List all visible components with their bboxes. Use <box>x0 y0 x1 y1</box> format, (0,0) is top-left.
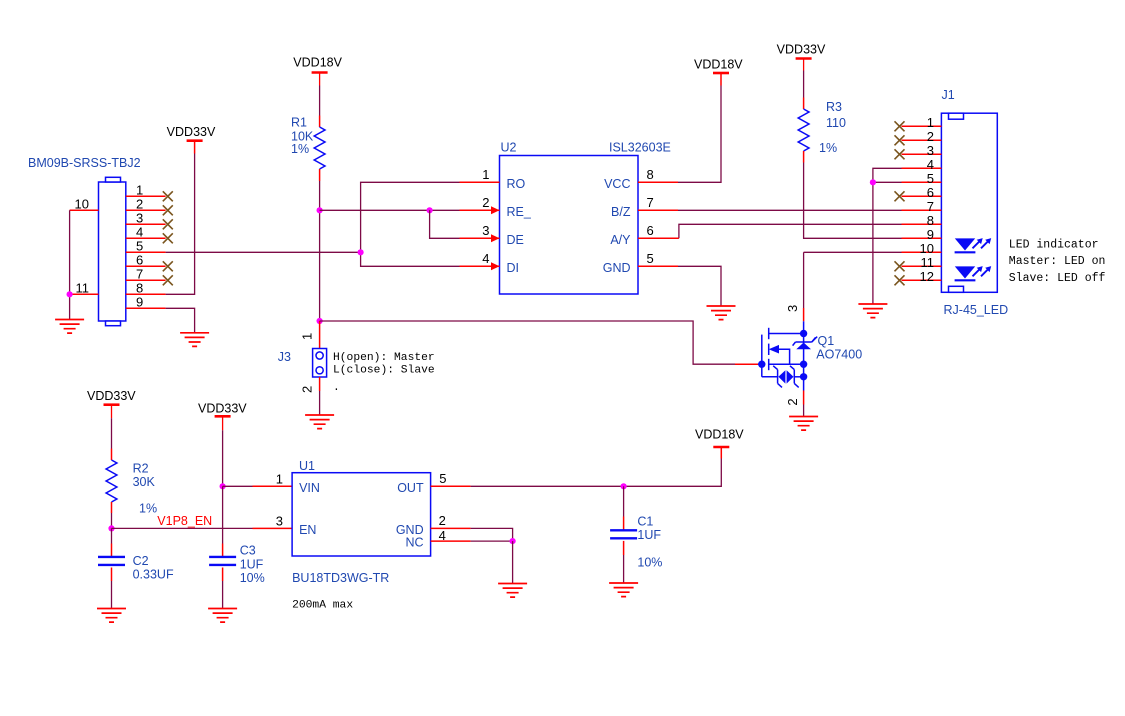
svg-text:1%: 1% <box>291 142 309 156</box>
svg-text:9: 9 <box>136 294 143 309</box>
svg-text:RJ-45_LED: RJ-45_LED <box>944 303 1009 317</box>
svg-text:6: 6 <box>136 252 143 267</box>
svg-text:ISL32603E: ISL32603E <box>609 141 671 155</box>
svg-text:7: 7 <box>927 199 934 214</box>
svg-text:LED indicator: LED indicator <box>1009 238 1099 251</box>
svg-text:VCC: VCC <box>604 177 630 191</box>
svg-text:VDD33V: VDD33V <box>777 43 826 57</box>
svg-text:Q1: Q1 <box>818 334 835 348</box>
svg-text:R3: R3 <box>826 100 842 114</box>
svg-text:5: 5 <box>439 471 446 486</box>
svg-text:R2: R2 <box>133 462 149 476</box>
svg-text:C3: C3 <box>240 544 256 558</box>
svg-text:2: 2 <box>300 386 315 393</box>
svg-text:J3: J3 <box>278 350 291 364</box>
svg-text:8: 8 <box>927 213 934 228</box>
svg-text:3: 3 <box>785 305 800 312</box>
svg-text:2: 2 <box>927 129 934 144</box>
svg-text:J1: J1 <box>942 88 955 102</box>
svg-text:2: 2 <box>136 196 143 211</box>
svg-text:4: 4 <box>927 157 934 172</box>
svg-text:200mA max: 200mA max <box>292 600 353 612</box>
svg-text:V1P8_EN: V1P8_EN <box>157 514 212 528</box>
svg-text:.: . <box>333 382 340 394</box>
svg-text:DI: DI <box>507 261 520 275</box>
svg-text:3: 3 <box>482 223 489 238</box>
svg-text:1%: 1% <box>819 141 837 155</box>
svg-text:30K: 30K <box>133 475 156 489</box>
svg-text:C1: C1 <box>637 515 653 529</box>
svg-text:U1: U1 <box>299 459 315 473</box>
svg-text:VDD18V: VDD18V <box>695 427 744 441</box>
svg-text:VDD33V: VDD33V <box>167 125 216 139</box>
svg-text:3: 3 <box>927 143 934 158</box>
svg-text:10: 10 <box>75 196 89 211</box>
svg-text:9: 9 <box>927 227 934 242</box>
svg-text:4: 4 <box>136 224 143 239</box>
svg-text:1: 1 <box>136 182 143 197</box>
svg-text:3: 3 <box>276 514 283 529</box>
svg-text:6: 6 <box>647 223 654 238</box>
svg-text:2: 2 <box>439 513 446 528</box>
svg-text:H(open): Master: H(open): Master <box>333 352 435 364</box>
svg-text:VDD33V: VDD33V <box>87 389 136 403</box>
svg-text:BM09B-SRSS-TBJ2: BM09B-SRSS-TBJ2 <box>28 156 141 170</box>
svg-text:1UF: 1UF <box>240 557 264 571</box>
svg-text:10: 10 <box>920 241 934 256</box>
svg-text:B/Z: B/Z <box>611 205 631 219</box>
svg-text:2: 2 <box>785 398 800 405</box>
svg-text:VDD33V: VDD33V <box>198 402 247 416</box>
svg-text:RO: RO <box>507 177 526 191</box>
svg-text:11: 11 <box>76 280 90 295</box>
svg-text:Master: LED on: Master: LED on <box>1009 255 1106 268</box>
svg-text:VDD18V: VDD18V <box>293 56 342 70</box>
svg-text:OUT: OUT <box>397 481 424 495</box>
svg-text:A/Y: A/Y <box>610 233 631 247</box>
svg-text:12: 12 <box>920 269 934 284</box>
svg-text:R1: R1 <box>291 116 307 130</box>
svg-text:5: 5 <box>136 238 143 253</box>
svg-text:3: 3 <box>136 210 143 225</box>
svg-text:VDD18V: VDD18V <box>694 57 743 71</box>
svg-text:NC: NC <box>406 536 424 550</box>
svg-text:6: 6 <box>927 185 934 200</box>
svg-text:10%: 10% <box>240 571 265 585</box>
svg-text:BU18TD3WG-TR: BU18TD3WG-TR <box>292 571 389 585</box>
svg-text:5: 5 <box>647 251 654 266</box>
svg-text:1: 1 <box>300 333 315 340</box>
svg-text:DE: DE <box>507 233 524 247</box>
svg-text:C2: C2 <box>133 554 149 568</box>
svg-text:0.33UF: 0.33UF <box>133 568 174 582</box>
svg-text:RE_: RE_ <box>507 205 532 219</box>
svg-text:1: 1 <box>927 115 934 130</box>
svg-text:10%: 10% <box>637 556 662 570</box>
svg-text:Slave: LED off: Slave: LED off <box>1009 272 1106 285</box>
svg-text:EN: EN <box>299 523 316 537</box>
svg-text:1%: 1% <box>139 501 157 515</box>
svg-text:1UF: 1UF <box>637 528 661 542</box>
svg-text:110: 110 <box>826 116 846 130</box>
svg-text:1: 1 <box>276 472 283 487</box>
svg-text:L(close): Slave: L(close): Slave <box>333 365 435 377</box>
svg-text:AO7400: AO7400 <box>816 348 862 362</box>
svg-text:GND: GND <box>603 261 631 275</box>
svg-text:2: 2 <box>482 195 489 210</box>
svg-text:11: 11 <box>921 255 935 270</box>
svg-text:1: 1 <box>482 167 489 182</box>
svg-text:8: 8 <box>647 167 654 182</box>
svg-text:VIN: VIN <box>299 481 320 495</box>
svg-text:7: 7 <box>647 195 654 210</box>
svg-text:8: 8 <box>136 280 143 295</box>
svg-text:7: 7 <box>136 266 143 281</box>
svg-text:U2: U2 <box>501 141 517 155</box>
svg-text:5: 5 <box>927 171 934 186</box>
svg-text:4: 4 <box>482 251 489 266</box>
